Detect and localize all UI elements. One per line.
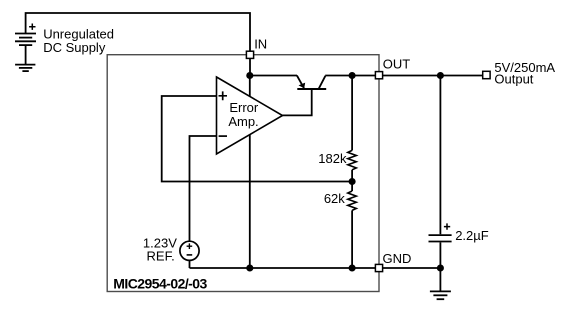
svg-text:Output: Output [494,71,533,86]
svg-text:GND: GND [383,251,412,266]
node junction capacitor ground [437,264,444,271]
svg-text:182k: 182k [318,151,347,166]
wire to output ground symbol [439,268,441,291]
node junction capacitor top [437,72,444,79]
label 5V/250mA Output [494,60,555,87]
svg-text:MIC2954-02/-03: MIC2954-02/-03 [113,276,207,292]
transistor Q1 (PNP pass transistor) [297,76,352,90]
wire divider top [351,76,353,151]
wire inverting input to reference [190,136,217,241]
battery B1 (Unregulated DC Supply) [15,24,36,46]
svg-text:62k: 62k [324,191,345,206]
node junction divider ground [349,264,356,271]
voltage reference 1.23V REF [143,236,199,264]
resistor 182k [348,150,357,169]
wire error amp ground stub [249,135,251,269]
resistor 62k [348,191,357,210]
wire base drive from error amp output [283,90,312,116]
wire emitter feed [250,75,297,77]
IC boundary box MIC2954-02/-03 [107,55,379,292]
wire internal ground rail [190,267,377,269]
wire capacitor bottom [439,242,441,268]
wire reference to ground rail [189,260,191,268]
wire battery positive to IN terminal [26,13,250,51]
node junction collector/divider [349,72,356,79]
node junction error amp ground [246,264,253,271]
wire divider bottom to ground rail [351,210,353,268]
terminal output 5V [483,71,490,78]
terminal IN [246,51,253,58]
label Unregulated DC Supply [43,27,114,55]
capacitor 2.2uF [429,223,452,241]
ground (battery) [15,65,35,72]
wire capacitor top [439,76,441,235]
wire battery negative to ground [25,45,27,64]
wire output ground segment [383,267,441,269]
node junction divider tap [349,178,356,185]
svg-text:Error: Error [229,100,259,115]
node junction IN branch [246,72,253,79]
wire error amp supply stub [249,76,251,97]
svg-text:Amp.: Amp. [228,114,258,129]
svg-text:OUT: OUT [383,56,411,71]
op-amp U1 error amplifier [217,77,283,154]
wire collector to OUT and output terminal [352,75,483,77]
wire divider middle [351,170,353,191]
svg-text:REF.: REF. [147,249,175,264]
wire IN vertical into regulator [249,58,251,75]
wire non-inverting input / feedback from divider tap [162,96,352,182]
svg-text:DC Supply: DC Supply [43,40,106,55]
ground (output) [430,291,451,299]
terminal GND [375,264,382,271]
svg-text:2.2µF: 2.2µF [455,228,489,243]
terminal OUT [375,72,382,79]
svg-text:IN: IN [254,37,267,52]
